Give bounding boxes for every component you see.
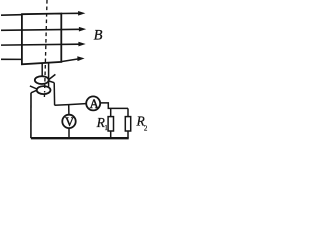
voltmeter stub: [68, 105, 70, 115]
bottom wire: [31, 137, 129, 139]
coil lead left: [41, 63, 43, 76]
field line 4 right segment with arrow: [61, 59, 77, 62]
svg-text:B: B: [94, 28, 103, 44]
rotation axis (dashed): [45, 0, 47, 93]
resistor R1 body: [108, 117, 113, 131]
wire from brush 2 down left side: [30, 93, 32, 138]
wire ammeter to bus: [101, 103, 129, 109]
resistor R1 bottom lead: [110, 131, 112, 138]
svg-text:2: 2: [144, 124, 148, 132]
arrowhead 2: [79, 27, 86, 32]
field line 3: [1, 43, 79, 46]
brush 1 (upper right): [49, 74, 55, 82]
arrowhead 4: [77, 56, 84, 61]
wire from brush 1 down to circuit: [53, 83, 55, 106]
brush 2 (lower left): [30, 86, 37, 93]
voltmeter lower lead: [68, 128, 70, 138]
slip ring 2: [37, 86, 51, 94]
voltmeter V: [62, 115, 75, 128]
field line 4 left segment: [1, 58, 22, 60]
svg-text:A: A: [90, 97, 99, 111]
svg-text:V: V: [65, 115, 74, 129]
field line 1 right segment with arrow: [61, 12, 79, 14]
resistor R2 bottom lead: [127, 131, 129, 138]
arrowhead 3: [78, 42, 85, 47]
coil lead right: [48, 63, 50, 87]
svg-text:1: 1: [104, 124, 108, 132]
resistor R1 top lead: [110, 108, 112, 116]
wire corner to ammeter branch: [55, 104, 86, 106]
resistor R2 top lead: [127, 108, 129, 116]
resistor R2 body: [125, 117, 130, 131]
field line 2: [1, 29, 80, 30]
slip ring 1: [35, 76, 49, 84]
coil rectangle: [22, 14, 61, 65]
field line 1 left segment: [1, 14, 22, 17]
axis final dash: [43, 94, 45, 97]
ammeter A: [86, 96, 100, 110]
arrowhead 1: [78, 11, 85, 16]
